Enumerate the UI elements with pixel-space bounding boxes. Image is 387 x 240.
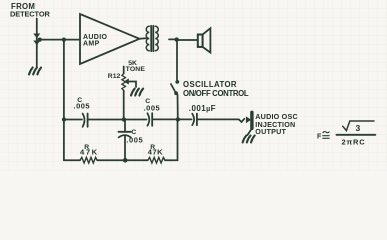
switch S1 oscillator on/off bbox=[175, 80, 179, 84]
output plug arrow bbox=[246, 117, 250, 122]
pot element zigzag bbox=[122, 74, 126, 91]
wire rail segment 4 bbox=[153, 118, 178, 120]
wire stub to speaker node bbox=[169, 38, 177, 40]
svg-text:TONE: TONE bbox=[126, 66, 146, 73]
potentiometer R12 5K tone bbox=[108, 60, 146, 80]
paper background bbox=[0, 0, 387, 171]
capacitor C2 .005 bbox=[147, 113, 149, 126]
svg-text:ON/OFF CONTROL: ON/OFF CONTROL bbox=[183, 89, 249, 98]
ground (wiper) bbox=[131, 89, 143, 96]
wire v-dip at output bbox=[239, 119, 245, 122]
wire rail segment 1 bbox=[64, 119, 82, 121]
node shunt bottom bbox=[123, 158, 128, 163]
core bbox=[151, 26, 153, 51]
svg-text:OSCILLATOR: OSCILLATOR bbox=[183, 80, 237, 89]
capacitor C4 .001uF bbox=[192, 114, 194, 126]
svg-text:.005: .005 bbox=[126, 135, 143, 144]
wire to speaker bbox=[177, 39, 198, 41]
node switch/rail junction bbox=[176, 117, 180, 121]
wire bottom rail mid bbox=[97, 159, 148, 161]
wire rail segment 3 bbox=[124, 119, 147, 121]
label FROM DETECTOR bbox=[10, 2, 50, 18]
capacitor C1 .005 bbox=[83, 114, 85, 127]
ground (input) bbox=[29, 68, 41, 75]
wire rail segment 2 bbox=[88, 119, 123, 121]
svg-text:2πRC: 2πRC bbox=[342, 138, 366, 147]
wire feedback left vertical bbox=[63, 40, 65, 161]
svg-text:OUTPUT: OUTPUT bbox=[255, 127, 286, 136]
wire switch to rail bbox=[177, 95, 179, 120]
wire amp output to transformer bbox=[140, 37, 147, 40]
node speaker junction bbox=[175, 37, 179, 41]
wire to ground bbox=[36, 45, 38, 68]
svg-text:47K: 47K bbox=[148, 147, 163, 156]
node rail left bbox=[62, 117, 66, 121]
node feedback tap bbox=[62, 38, 66, 42]
svg-text:.005: .005 bbox=[144, 104, 161, 113]
ground (output) bbox=[243, 136, 255, 143]
op-amp U1 audio amplifier bbox=[80, 14, 140, 64]
wire speaker node down to switch bbox=[176, 40, 178, 80]
pot wiper arrow bbox=[125, 79, 129, 83]
secondary coil bbox=[155, 26, 158, 50]
wire input to amp bbox=[40, 39, 80, 41]
resistor R2 47K bbox=[148, 157, 165, 163]
svg-text:3: 3 bbox=[356, 123, 361, 133]
wire bottom rail right + up to switch rail bbox=[165, 122, 178, 161]
label oscillator on/off control bbox=[183, 80, 249, 98]
label audio osc injection output bbox=[255, 112, 298, 136]
capacitor C3 .005 shunt bbox=[124, 120, 126, 132]
node tone/shunt junction bbox=[122, 117, 126, 121]
svg-text:47K: 47K bbox=[80, 148, 99, 157]
wire rail segment 5 bbox=[178, 118, 192, 120]
primary coil bbox=[146, 26, 149, 50]
wire rail segment 6 to output bbox=[198, 118, 239, 120]
resistor R1 47K bbox=[80, 157, 97, 163]
wire jack to ground bbox=[248, 128, 252, 135]
svg-text:R12: R12 bbox=[108, 73, 121, 80]
connector arrow lower bbox=[34, 41, 39, 44]
wire from detector (vertical lead) bbox=[36, 19, 38, 45]
approx-equal sign bbox=[323, 132, 329, 139]
transformer T1 bbox=[146, 26, 158, 51]
connector arrow upper bbox=[34, 34, 39, 37]
formula F = sqrt(3)/2piRC bbox=[317, 123, 361, 141]
speaker LS1 bbox=[198, 28, 211, 52]
svg-text:.001µF: .001µF bbox=[189, 104, 216, 113]
wire bottom rail left bbox=[64, 159, 80, 161]
svg-text:DETECTOR: DETECTOR bbox=[10, 9, 50, 18]
svg-text:AMP: AMP bbox=[83, 40, 100, 47]
output jack bar bbox=[250, 112, 253, 128]
node input junction bbox=[38, 38, 42, 42]
svg-text:.005: .005 bbox=[74, 101, 91, 110]
svg-text:F: F bbox=[317, 134, 322, 141]
